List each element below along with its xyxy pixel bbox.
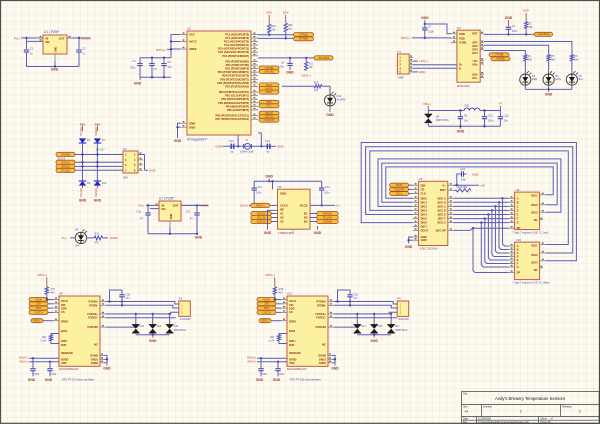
net label SDO — [29, 306, 48, 310]
svg-text:DGND: DGND — [318, 353, 326, 357]
svg-text:B: B — [517, 200, 519, 204]
svg-text:P(+): P(+) — [14, 36, 20, 40]
svg-text:4k7: 4k7 — [51, 292, 56, 295]
svg-text:D5V: D5V — [266, 10, 272, 14]
svg-text:U1 LP295*: U1 LP295* — [44, 30, 60, 34]
wire led1 — [480, 42, 484, 44]
wire DTR net — [258, 34, 294, 36]
svg-text:D5V(+): D5V(+) — [266, 273, 276, 277]
svg-text:10n: 10n — [504, 118, 509, 122]
LED D12 ALARM — [324, 95, 335, 106]
svg-text:+5V: +5V — [480, 183, 485, 187]
clamp diode D10 — [94, 181, 101, 186]
svg-text:10n: 10n — [280, 66, 285, 69]
svg-text:DIG1: DIG1 — [531, 193, 538, 197]
svg-text:U10: U10 — [516, 238, 522, 242]
svg-text:URX(B): URX(B) — [496, 57, 505, 61]
svg-text:R12: R12 — [314, 82, 319, 85]
svg-text:SM6T15CA: SM6T15CA — [395, 329, 408, 332]
capacitor C7 — [424, 24, 426, 27]
svg-text:C15: C15 — [504, 113, 509, 117]
protection diode D11 — [135, 314, 137, 325]
svg-text:V+: V+ — [442, 183, 446, 187]
svg-text:D11: D11 — [140, 325, 145, 328]
svg-text:GND2: GND2 — [319, 361, 327, 365]
svg-text:100n: 100n — [512, 29, 518, 33]
svg-text:RVP+: RVP+ — [61, 339, 68, 343]
svg-text:C24: C24 — [461, 168, 466, 171]
svg-text:DIG2: DIG2 — [531, 203, 538, 207]
svg-text:GND: GND — [149, 169, 157, 173]
svg-text:RTDIN+: RTDIN+ — [317, 300, 327, 304]
svg-text:GND: GND — [545, 93, 553, 97]
svg-text:SCL: SCL — [472, 76, 478, 80]
net label A-SCL(S) — [251, 215, 271, 219]
svg-text:16Mhz 10pF: 16Mhz 10pF — [240, 151, 254, 154]
svg-text:E: E — [517, 213, 519, 217]
svg-text:RTDIN-: RTDIN- — [317, 303, 326, 307]
svg-text:D5V(S): D5V(S) — [61, 160, 70, 164]
svg-text:CS(T1): CS(T1) — [34, 310, 42, 314]
svg-text:SEG B: SEG B — [437, 200, 445, 204]
net label CS drv — [390, 187, 409, 191]
capacitor C19 — [32, 358, 34, 368]
svg-text:VDD: VDD — [61, 361, 67, 365]
capacitor C21 — [260, 358, 262, 368]
svg-text:CS(T2): CS(T2) — [262, 310, 270, 314]
svg-text:PD4 (PCINT20/XCK/T0): PD4 (PCINT20/XCK/T0) — [222, 75, 249, 78]
svg-text:GND: GND — [505, 16, 513, 20]
svg-text:SM6T15CA: SM6T15CA — [436, 119, 449, 122]
svg-text:C2: C2 — [512, 24, 516, 28]
svg-text:AREF: AREF — [189, 47, 197, 51]
svg-text:SDO: SDO — [264, 306, 270, 310]
svg-text:BIAS: BIAS — [289, 329, 295, 333]
svg-text:RTD PT-100 (blue identifier): RTD PT-100 (blue identifier) — [62, 377, 94, 381]
svg-text:PC5 (ADC5/SCL/PCINT13): PC5 (ADC5/SCL/PCINT13) — [218, 51, 249, 54]
net label A-SDA(S) — [251, 211, 271, 215]
capacitor C16 — [110, 290, 123, 302]
resistor R4 — [524, 54, 527, 61]
wire digit bus 4 — [370, 151, 569, 245]
svg-text:D5V: D5V — [80, 122, 86, 126]
net label CS(T1) — [259, 111, 279, 115]
gnd filter — [459, 126, 461, 129]
svg-text:DRDY: DRDY — [33, 319, 41, 323]
svg-text:+5LARGE: +5LARGE — [538, 32, 550, 36]
protection diode D13 — [152, 314, 154, 325]
wire segment A — [454, 197, 509, 199]
svg-text:GND(S): GND(S) — [256, 220, 265, 224]
svg-text:DRDY: DRDY — [61, 320, 69, 324]
gnd TXB left — [268, 210, 278, 229]
svg-text:0.1%: 0.1% — [41, 339, 47, 342]
svg-text:VDD: VDD — [459, 36, 465, 40]
wire B3 — [310, 221, 317, 223]
wire rtdin+ — [100, 301, 106, 303]
svg-text:+5V(+): +5V(+) — [419, 59, 428, 63]
svg-text:PB4 (MISO/PCINT4): PB4 (MISO/PCINT4) — [226, 105, 249, 108]
svg-text:VUSB: VUSB — [459, 41, 467, 45]
svg-text:A5V(+): A5V(+) — [19, 359, 28, 363]
svg-text:MAX31865AAP: MAX31865AAP — [59, 367, 79, 371]
gnd rtd chip — [328, 354, 332, 356]
svg-text:4k7: 4k7 — [279, 292, 284, 295]
svg-text:U6: U6 — [419, 177, 423, 181]
svg-text:C12: C12 — [229, 140, 234, 143]
svg-text:100n: 100n — [324, 192, 330, 195]
svg-text:C1: C1 — [30, 47, 34, 51]
svg-text:P2: P2 — [123, 147, 127, 151]
svg-text:D5V(+): D5V(+) — [156, 48, 166, 52]
gnd TXB right — [292, 229, 294, 231]
svg-text:C11: C11 — [258, 186, 263, 189]
svg-text:SM6T15CA: SM6T15CA — [174, 329, 187, 332]
svg-text:FORCE-: FORCE- — [88, 316, 98, 320]
svg-text:OUT: OUT — [173, 204, 179, 208]
svg-text:10n: 10n — [167, 65, 172, 69]
svg-text:CE: CE — [421, 188, 425, 192]
svg-text:+5LARGE: +5LARGE — [318, 56, 330, 60]
svg-text:DIG3: DIG3 — [421, 208, 428, 212]
svg-text:CS: CS — [289, 310, 293, 314]
net label SENS3 — [56, 168, 75, 172]
svg-text:A: A — [517, 196, 519, 200]
wire tvs rail — [136, 334, 170, 336]
net label SCLK — [257, 298, 276, 302]
capacitor C23 — [277, 362, 279, 368]
svg-text:SCLK: SCLK — [61, 299, 68, 303]
svg-text:C13: C13 — [265, 140, 270, 143]
capacitor C5 — [163, 58, 165, 63]
net label B-SDA(S) — [317, 211, 339, 215]
net label A-GND(S) — [251, 219, 271, 223]
svg-text:100n: 100n — [51, 374, 57, 376]
svg-text:DIG5: DIG5 — [421, 217, 428, 221]
wire led3 — [480, 49, 484, 51]
svg-text:GND: GND — [256, 378, 264, 382]
svg-text:GND: GND — [265, 175, 273, 179]
svg-text:DIG6: DIG6 — [421, 221, 428, 225]
svg-text:C7: C7 — [428, 25, 432, 29]
svg-text:SDA(R): SDA(R) — [94, 127, 98, 136]
wire segment B — [454, 201, 509, 203]
svg-text:7 digit 7 segment 0.36" CC (re: 7 digit 7 segment 0.36" CC (red) — [513, 232, 549, 235]
wire rtdin- — [100, 304, 106, 306]
wire sensor bus 2 — [75, 161, 123, 163]
title block — [462, 392, 600, 424]
svg-text:RVP+: RVP+ — [289, 339, 296, 343]
svg-text:FB1: FB1 — [465, 104, 470, 108]
svg-text:GND: GND — [370, 339, 378, 343]
resistor R14 — [51, 334, 59, 335]
svg-text:GND: GND — [326, 113, 334, 117]
svg-text:RVP-: RVP- — [289, 343, 295, 347]
svg-text:SDA(S): SDA(S) — [61, 165, 70, 169]
svg-text:TXB0104PW: TXB0104PW — [278, 231, 295, 235]
svg-text:VDD: VDD — [289, 361, 295, 365]
svg-text:ATmega328-P: ATmega328-P — [187, 138, 207, 142]
svg-text:SCL(R): SCL(R) — [79, 127, 83, 136]
LED D3 green — [543, 74, 554, 85]
svg-text:470: 470 — [95, 242, 100, 245]
svg-text:Andy's Brewery Temperature Sen: Andy's Brewery Temperature Sensors — [495, 396, 565, 401]
svg-text:(+): (+) — [499, 101, 503, 105]
wire sensor bus 3 — [75, 165, 123, 167]
svg-text:FORCE2: FORCE2 — [315, 325, 326, 329]
svg-text:GND: GND — [45, 378, 53, 382]
capacitor C1 — [25, 37, 27, 39]
svg-text:D5V(+): D5V(+) — [302, 73, 311, 77]
net label VCCA — [251, 203, 270, 207]
svg-text:SEG D: SEG D — [437, 208, 445, 212]
svg-text:GND: GND — [94, 199, 102, 203]
svg-text:240: 240 — [314, 89, 319, 92]
svg-text:GND: GND — [419, 70, 425, 74]
svg-text:DRDY: DRDY — [261, 319, 269, 323]
wire led2 — [480, 45, 484, 47]
wire segment E — [454, 214, 509, 216]
resistor R13 — [94, 236, 103, 240]
capacitor C11 — [252, 187, 257, 189]
wire segment DP — [454, 228, 509, 230]
ground rail / gnd U1 — [27, 66, 80, 68]
net label DRDY — [259, 319, 271, 323]
svg-text:GND: GND — [169, 213, 173, 219]
svg-text:GND: GND — [134, 82, 142, 86]
wire force+ — [328, 313, 334, 315]
net label MISO — [259, 90, 279, 94]
svg-text:SCL: SCL — [266, 104, 272, 108]
svg-text:D5V: D5V — [283, 10, 289, 14]
capacitor C9 — [459, 109, 461, 111]
svg-text:U8: U8 — [516, 188, 520, 192]
protection diode D15 — [169, 314, 171, 325]
svg-text:D: D — [517, 255, 519, 259]
svg-text:A3: A3 — [280, 220, 284, 224]
wire force2 — [100, 326, 106, 328]
svg-text:SCL(R): SCL(R) — [79, 188, 83, 197]
wire +5LARGE — [258, 57, 314, 59]
svg-text:OUT: OUT — [59, 37, 65, 41]
wire sensor bus 1 — [75, 154, 123, 156]
svg-text:D16: D16 — [378, 325, 383, 328]
svg-text:R23 28k: R23 28k — [458, 185, 468, 189]
svg-text:SCL(S): SCL(S) — [61, 168, 70, 172]
net label MOSI — [259, 87, 279, 91]
wire B1 — [310, 213, 317, 215]
wire output — [67, 37, 90, 39]
svg-text:USB: USB — [397, 76, 403, 80]
svg-text:0.1%: 0.1% — [269, 339, 275, 342]
net label B-GND(S) — [317, 219, 339, 223]
svg-text:ISENSOR: ISENSOR — [61, 351, 73, 355]
svg-text:DIG2: DIG2 — [421, 204, 428, 208]
svg-text:EN: EN — [46, 40, 50, 44]
capacitor C10f — [483, 109, 485, 111]
wire TXB top — [254, 181, 322, 187]
svg-text:GND: GND — [195, 236, 203, 240]
svg-text:DIG1: DIG1 — [421, 200, 428, 204]
svg-text:GND1: GND1 — [319, 357, 327, 361]
svg-text:PB6 (PCINT6/XTAL1/TOSC1): PB6 (PCINT6/XTAL1/TOSC1) — [215, 115, 249, 118]
net label CS(T2) — [259, 115, 279, 119]
svg-text:SEG DP: SEG DP — [436, 228, 446, 232]
svg-text:D5V(+): D5V(+) — [401, 36, 411, 40]
svg-text:URX(B): URX(B) — [265, 70, 274, 74]
svg-text:G: G — [517, 221, 519, 225]
svg-text:RST: RST — [472, 31, 478, 35]
svg-text:DRDY: DRDY — [289, 320, 297, 324]
wire rtdin+ — [328, 301, 334, 303]
capacitor C6 — [151, 58, 153, 63]
wire sensor bus 4 — [75, 169, 123, 171]
wire P2 gnd — [144, 155, 146, 171]
svg-text:C18: C18 — [136, 210, 141, 213]
svg-text:VCC: VCC — [189, 33, 195, 37]
net label DRDY — [31, 319, 43, 323]
svg-text:VB(+): VB(+) — [423, 102, 431, 106]
svg-text:C3: C3 — [82, 47, 86, 51]
svg-text:R13: R13 — [95, 232, 100, 235]
clamp diode D9 — [79, 181, 86, 186]
svg-text:RTD PT-100 (red identifier): RTD PT-100 (red identifier) — [290, 377, 321, 381]
svg-text:7 digit 7 segment 0.36" CC (bl: 7 digit 7 segment 0.36" CC (blue) — [513, 282, 550, 285]
svg-text:D5V: D5V — [95, 122, 101, 126]
wire A2 — [271, 217, 278, 219]
svg-text:D10: D10 — [102, 182, 107, 185]
gnd rtd chip — [100, 354, 104, 356]
svg-text:DP: DP — [517, 226, 521, 230]
gnd driver — [409, 237, 413, 244]
svg-text:GND(R): GND(R) — [323, 220, 333, 224]
svg-text:FORCE+: FORCE+ — [87, 312, 98, 316]
svg-text:BIAS: BIAS — [61, 329, 67, 333]
svg-text:FORCE2: FORCE2 — [87, 325, 98, 329]
svg-text:D15: D15 — [174, 325, 179, 328]
wire digit bus 5 — [366, 147, 573, 253]
svg-text:SEG C: SEG C — [437, 204, 445, 208]
svg-text:GND: GND — [405, 245, 413, 249]
svg-text:D-: D- — [459, 66, 462, 70]
svg-text:Title: Title — [463, 393, 468, 396]
wire filter top — [428, 110, 464, 112]
svg-text:GND: GND — [79, 199, 87, 203]
svg-text:GND: GND — [314, 231, 322, 235]
svg-text:D: D — [517, 208, 519, 212]
svg-text:100n: 100n — [461, 179, 467, 182]
svg-text:(A5V): (A5V) — [202, 204, 210, 208]
net label SJ-GND — [56, 152, 75, 156]
svg-text:MOSI: MOSI — [396, 183, 403, 187]
net label SCLK — [29, 298, 48, 302]
svg-text:1: 1 — [579, 410, 581, 414]
svg-text:U7 LP295*: U7 LP295* — [159, 197, 175, 201]
net label SENS1 — [56, 160, 75, 164]
net label SDO — [257, 306, 276, 310]
svg-text:B: B — [517, 248, 519, 252]
svg-text:U11: U11 — [287, 292, 293, 296]
svg-text:3x1F42R: 3x1F42R — [180, 317, 191, 321]
svg-text:P(+): P(+) — [139, 204, 145, 208]
wire VCCB — [310, 204, 335, 206]
svg-text:P(-): P(-) — [62, 236, 67, 240]
svg-text:SDA(R): SDA(R) — [94, 188, 98, 197]
net label SDI — [257, 302, 276, 306]
resistor R6 — [571, 48, 573, 54]
svg-text:D12: D12 — [337, 94, 342, 98]
svg-text:UTX(B): UTX(B) — [495, 53, 504, 57]
svg-text:GND: GND — [421, 238, 427, 242]
svg-text:SEG A: SEG A — [438, 196, 446, 200]
svg-text:SDO: SDO — [61, 306, 67, 310]
svg-text:GP2: GP2 — [472, 44, 478, 48]
svg-text:GND: GND — [215, 144, 223, 148]
svg-text:47n: 47n — [126, 297, 131, 300]
svg-text:A4: A4 — [465, 410, 469, 414]
gnd MCU — [178, 123, 181, 131]
svg-text:DW: DW — [123, 175, 128, 179]
net label MOSI drv — [390, 183, 409, 187]
svg-text:DGND: DGND — [90, 353, 98, 357]
svg-text:100n: 100n — [488, 118, 494, 122]
svg-text:Number: Number — [484, 405, 493, 408]
svg-text:MAX31865AAP: MAX31865AAP — [287, 367, 307, 371]
capacitor C3 — [78, 37, 80, 39]
svg-text:BLU: BLU — [579, 78, 584, 81]
svg-text:GND: GND — [280, 192, 286, 196]
wire segment G — [454, 222, 509, 224]
protection diode D14 — [356, 314, 358, 325]
svg-text:CS(DSP): CS(DSP) — [264, 118, 275, 122]
net label B-SCL(S) — [317, 215, 339, 219]
svg-text:PB5 (SCK/PCINT5): PB5 (SCK/PCINT5) — [227, 109, 249, 112]
net label SCLK — [259, 83, 279, 87]
svg-text:DIG2: DIG2 — [531, 253, 538, 257]
protection diode D16 — [373, 314, 375, 325]
svg-text:GND: GND — [189, 125, 195, 129]
capacitor C18 — [147, 204, 149, 206]
svg-text:DOUT: DOUT — [421, 228, 429, 232]
capacitor C13 — [267, 144, 269, 149]
svg-text:RDA(R): RDA(R) — [323, 212, 332, 216]
wire segment F — [454, 218, 509, 220]
wire filter bottom — [428, 125, 500, 127]
capacitor C17 — [181, 204, 201, 206]
capacitor C8 — [289, 58, 291, 63]
svg-text:MCP2200: MCP2200 — [457, 84, 470, 88]
svg-text:NC: NC — [322, 343, 326, 347]
svg-text:PC3 (ADC3/PCINT11): PC3 (ADC3/PCINT11) — [224, 44, 249, 47]
svg-text:100n: 100n — [428, 30, 434, 34]
svg-text:SDO: SDO — [289, 306, 295, 310]
resistor R11 — [305, 58, 307, 62]
svg-text:ISENSOR: ISENSOR — [289, 351, 301, 355]
svg-text:100n: 100n — [256, 192, 262, 195]
svg-text:PC6 (PCINT14/RESET): PC6 (PCINT14/RESET) — [222, 55, 249, 58]
svg-text:D5V(+): D5V(+) — [240, 204, 250, 208]
capacitor C15 — [499, 106, 501, 116]
wire B2 — [310, 217, 317, 219]
svg-text:SCLK: SCLK — [289, 299, 296, 303]
wire drv spi — [409, 184, 413, 186]
svg-text:DIG3: DIG3 — [531, 260, 538, 264]
svg-text:GP1: GP1 — [472, 41, 478, 45]
wire digit bus 6 — [361, 143, 576, 261]
wire digit bus 3 — [378, 159, 561, 212]
svg-text:560: 560 — [528, 58, 533, 61]
svg-text:SDA(S): SDA(S) — [257, 212, 266, 216]
